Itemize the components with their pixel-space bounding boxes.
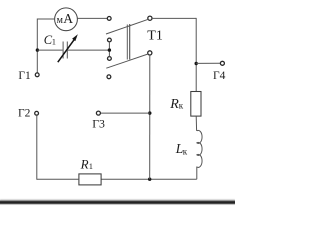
wire meter left to corner — [37, 18, 54, 20]
milliammeter PA (мА) — [55, 8, 78, 31]
svg-text:Г2: Г2 — [18, 107, 31, 119]
switch S1 contact a4 — [107, 75, 111, 79]
capacitor C1 plate right — [66, 42, 68, 59]
resistor Rk — [191, 92, 201, 117]
capacitor C1 plate left — [62, 42, 64, 59]
wire Lk to bottom rail — [196, 167, 198, 180]
svg-text:к: к — [183, 147, 188, 157]
node junction middle contacts — [108, 48, 111, 51]
switch S1 pivot b1 — [148, 16, 152, 20]
node junction left — [36, 48, 39, 51]
wire junction to terminal Г4 — [196, 62, 220, 64]
node junction Г3 tap — [148, 111, 151, 114]
variable-capacitor arrow — [58, 34, 78, 62]
page edge black band — [0, 201, 237, 204]
right rail down to Rk — [195, 18, 197, 92]
svg-text:А: А — [63, 11, 73, 26]
svg-text:1: 1 — [89, 161, 93, 171]
wire capacitor to switch node — [68, 49, 110, 51]
inductor Lk — [197, 130, 202, 167]
wire linking middle contacts — [108, 42, 110, 57]
wire left rail down — [36, 19, 38, 73]
wire Rk to Lk — [195, 116, 197, 131]
node junction G4 — [195, 62, 198, 65]
resistor R1 — [79, 174, 101, 185]
terminal Г3 circle — [96, 111, 100, 115]
wire Г3 to rail — [100, 112, 149, 114]
switch S1 contact a3 — [108, 57, 112, 61]
svg-text:Г3: Г3 — [92, 116, 105, 130]
bottom rail left segment — [37, 178, 79, 180]
wire pivot b1 to right rail — [152, 17, 196, 19]
terminal Г1 circle — [35, 73, 39, 77]
wire junction to capacitor — [37, 49, 62, 51]
page edge shadow light — [0, 199, 235, 201]
transformer T1 core line right — [129, 24, 131, 60]
right mid rail (switch pivot b2 down to bottom) — [149, 55, 151, 179]
svg-text:1: 1 — [52, 37, 56, 47]
switch S1 contact a2 — [108, 38, 112, 42]
switch S1 pivot b2 — [148, 51, 152, 55]
terminal Г4 circle — [220, 61, 224, 65]
node junction bottom — [148, 178, 151, 181]
svg-text:R: R — [80, 156, 89, 171]
svg-text:Г1: Г1 — [18, 70, 31, 82]
switch S1 contact a1 — [107, 17, 111, 21]
svg-text:R: R — [169, 97, 179, 112]
svg-text:Г4: Г4 — [213, 70, 226, 82]
switch S1 lever 2 — [106, 54, 148, 68]
wire meter right to switch contact — [77, 17, 107, 19]
left rail Г2 down to bottom — [36, 115, 38, 180]
switch S1 lever 1 — [106, 19, 148, 34]
svg-text:к: к — [179, 101, 184, 111]
bottom rail right segment — [101, 178, 197, 180]
terminal Г2 circle — [35, 111, 39, 115]
transformer T1 core line left — [126, 25, 128, 60]
svg-text:Т1: Т1 — [147, 29, 163, 44]
